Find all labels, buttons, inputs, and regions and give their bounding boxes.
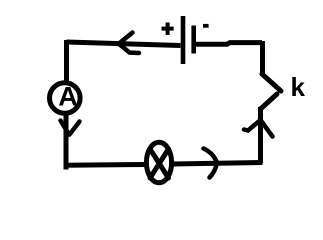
arrow current up on right wire [244,120,273,137]
wire left vertical lower [64,114,69,170]
arrow current right on bottom wire [204,149,218,178]
label - [203,24,209,28]
arrow current left on top wire [119,33,139,54]
wire bottom-left horizontal [64,162,146,168]
wire right vertical upper [260,41,265,74]
wire top-right horizontal [196,43,262,45]
ammeter A circle [50,83,81,114]
switch k blade [262,74,281,91]
arrow current down below ammeter [61,121,80,135]
svg-text:A: A [58,82,78,112]
label + [162,23,174,35]
battery plate short (-) [191,26,196,54]
battery plate long (+) [181,16,186,64]
wire left vertical upper [64,40,69,81]
switch k lower lead [261,94,278,109]
wire right vertical lower [258,107,263,163]
lamp L1 circle [146,142,171,183]
wire top-left horizontal [67,42,181,46]
svg-text:k: k [291,72,306,102]
wire bottom-right horizontal [173,163,263,165]
lamp L1 cross [150,149,169,178]
